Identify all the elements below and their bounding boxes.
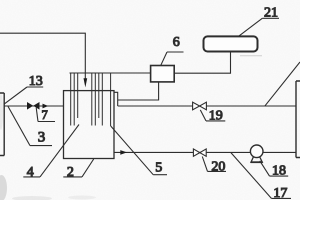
svg-text:5: 5: [155, 161, 162, 176]
label 13: [4, 74, 43, 104]
svg-text:4: 4: [27, 165, 34, 180]
bottom pipe from tank 2: [114, 151, 296, 153]
overflow outlet from tank 2: [114, 92, 118, 106]
electrode plates 4/5: [71, 73, 111, 126]
valve 20: [193, 149, 206, 156]
svg-text:6: 6: [173, 35, 180, 50]
label 3: [8, 106, 52, 145]
label 6: [161, 35, 184, 65]
feed arrow into tank 2: [84, 78, 88, 87]
scan smudges: [0, 94, 96, 201]
pump 18: [250, 145, 263, 162]
arrow 7 (flow arrow): [43, 104, 49, 109]
svg-text:7: 7: [41, 108, 47, 122]
wire box6 bottom to outlet node: [118, 82, 159, 100]
ghost shadow under box 21: [240, 55, 262, 57]
valve 19: [193, 102, 207, 110]
label 20: [202, 157, 226, 175]
label 18: [260, 161, 288, 179]
outlet arrow: [120, 150, 127, 155]
right tank (cut off): [296, 81, 300, 158]
rectifier box 6: [151, 66, 175, 82]
upper pipe to tank 11: [118, 105, 296, 107]
svg-text:3: 3: [38, 130, 46, 146]
wire feed line top-left: [0, 33, 85, 79]
label 17: [231, 153, 291, 201]
svg-text:20: 20: [211, 159, 225, 174]
label 19: [200, 109, 225, 124]
wire pipe from tank 1 to tank 2: [4, 105, 63, 107]
label 2: [63, 159, 93, 180]
valve 13: [27, 102, 33, 110]
tank 2 (electro tank): [64, 91, 115, 159]
wire box21 to box6: [174, 52, 230, 74]
tank 1 (left, cut off): [0, 93, 4, 156]
label 7: [36, 108, 55, 122]
label 5: [111, 126, 167, 176]
leader line to right tank: [265, 62, 300, 106]
electrode bus bar: [70, 72, 151, 74]
label 21: [239, 6, 279, 37]
controller box 21: [204, 36, 258, 51]
label 4: [23, 125, 79, 181]
svg-text:2: 2: [67, 165, 74, 180]
